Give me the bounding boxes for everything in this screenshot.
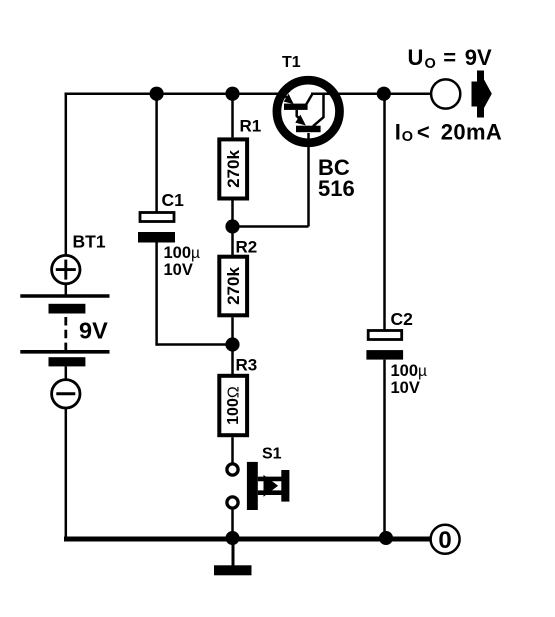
transistor T1 circle [277,80,340,143]
wire C1 bottom down [155,243,158,346]
svg-text:R3: R3 [236,356,258,375]
switch S1 actuator shaft bottom [258,490,282,495]
transistor T1 emitter lead with arrow [277,94,290,101]
capacitor C2 negative plate [366,350,403,360]
svg-text:U: U [408,45,424,70]
output terminal circle top [431,79,460,108]
output terminal circle 0 [431,525,460,554]
svg-text:0: 0 [438,527,451,554]
svg-text:9V: 9V [79,318,108,344]
svg-text:100µ: 100µ [164,244,201,262]
battery BT1 minus terminal circle [52,380,80,408]
switch S1 terminal circle bottom [227,497,238,508]
battery BT1 cell 2 short plate [49,357,86,366]
battery dashed link between cells [64,317,67,350]
wire C2 bottom to rail [383,360,386,539]
ground stub wire [232,539,235,566]
wire left vertical from top rail to battery + [65,94,68,257]
switch S1 contact bar [247,462,258,510]
wire top rail left segment [65,92,282,95]
svg-text:100Ω: 100Ω [225,386,242,425]
wire C2 branch top [383,94,386,331]
switch S1 terminal circle top [227,464,238,475]
battery BT1 plus terminal circle [52,255,80,283]
svg-text:T1: T1 [282,54,301,71]
svg-text:C1: C1 [162,190,185,210]
node junction C1/top rail [150,87,164,101]
svg-text:BT1: BT1 [73,232,106,252]
wire node X to R2 [231,227,234,256]
svg-text:=: = [443,45,456,70]
battery BT1 cell 1 long plate [20,294,109,298]
wire node Y to R3 [231,345,234,375]
wire R1 to node X [231,201,234,227]
svg-text:R2: R2 [236,238,258,257]
svg-text:S1: S1 [262,446,282,463]
wire R3 to S1 [231,437,234,462]
svg-text:20mA: 20mA [441,119,503,144]
wire R2 to node Y [231,317,234,344]
transistor T1 lower base bar [296,126,321,133]
wire node X to transistor base horizontal [233,225,309,228]
node Y junction R2/R3/C1 [225,337,239,351]
svg-text:<: < [417,119,430,144]
transistor T1 upper base bar [284,104,308,110]
svg-text:R1: R1 [240,117,262,136]
wire C1 to node Y horizontal [157,343,233,346]
wire S1 to bottom rail [231,508,234,539]
capacitor C2 positive plate [368,331,402,340]
svg-text:O: O [425,56,436,72]
ground symbol bar [214,565,252,575]
output arrow symbol [472,71,492,118]
wire battery plate to minus circle [65,366,68,380]
node X junction R1/R2/base [225,219,239,233]
wire C1 branch top [155,94,158,213]
transistor T1 lower collector lead [313,94,324,127]
switch S1 button cap [281,470,289,502]
resistor R2 body [219,257,247,316]
svg-text:I: I [395,119,401,144]
capacitor C1 positive plate [140,213,174,222]
node junction R1/top rail [225,87,239,101]
transistor T1 internal emitter lead with arrow [297,110,303,122]
node junction C2/bottom rail [379,531,393,545]
capacitor C1 negative plate [138,232,175,243]
wire battery minus to bottom rail [65,409,68,539]
svg-text:10V: 10V [391,379,420,397]
wire transistor base vertical [307,133,310,227]
switch S1 actuator shaft top [258,477,282,482]
node junction ground/bottom rail [226,531,240,545]
battery BT1 cell 1 short plate [49,304,86,314]
wire top rail right segment [311,92,430,95]
wire top rail to R1 [231,94,234,138]
resistor R3 body [219,376,247,435]
svg-text:9V: 9V [465,45,492,70]
svg-text:C2: C2 [391,309,414,329]
battery BT1 cell 2 long plate [20,350,109,354]
wire battery + circle to plate [65,285,68,297]
resistor R1 body [219,139,247,198]
svg-text:516: 516 [318,176,355,201]
node junction output/top rail [377,87,391,101]
svg-text:270k: 270k [224,150,243,188]
svg-text:10V: 10V [164,261,193,279]
svg-text:O: O [402,129,413,145]
transistor T1 upper collector lead [306,94,312,105]
svg-text:270k: 270k [224,267,243,305]
svg-text:100µ: 100µ [391,362,428,380]
wire bottom rail [64,537,431,542]
switch S1 actuator arrow [264,475,279,497]
